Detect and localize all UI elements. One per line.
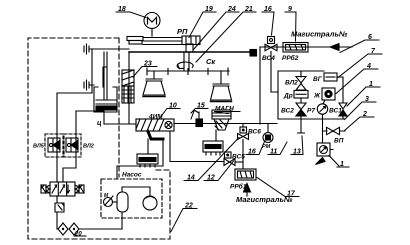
filter F1 [58, 223, 68, 235]
motor box Zh [322, 88, 335, 100]
rail block RP [182, 36, 200, 45]
wire cylinder feed [76, 110, 104, 112]
wire magnet drain [215, 130, 217, 141]
valve VC4 [265, 44, 277, 50]
tool bell right [220, 71, 222, 84]
cylinder piston [96, 100, 116, 104]
solenoid valve VL2L [64, 134, 81, 157]
svg-text:ВС5: ВС5 [232, 154, 245, 161]
valve VC5 assembly [225, 152, 232, 158]
svg-text:1: 1 [340, 161, 344, 168]
wire rod link [103, 67, 107, 87]
throttle VG [324, 73, 337, 81]
svg-text:16: 16 [264, 6, 272, 13]
magnet stack MAGN [212, 110, 231, 119]
tank box 12 [203, 141, 223, 152]
svg-text:21: 21 [244, 6, 253, 13]
cylinder C body [94, 87, 117, 112]
cylinder C (piston rod) [104, 52, 107, 100]
wire anchor pipe to rod [89, 48, 129, 50]
arrow magistral bottom [244, 184, 251, 193]
svg-text:ВС1: ВС1 [329, 108, 342, 115]
svg-text:ВП: ВП [334, 138, 344, 145]
spring left [46, 185, 50, 193]
svg-text:Ж: Ж [313, 93, 321, 100]
svg-text:2: 2 [362, 111, 367, 118]
check valve VL2 [296, 71, 306, 90]
wire machine bottom pipe [174, 123, 277, 125]
wire pump internal [122, 187, 150, 196]
pump gauge [104, 198, 113, 207]
wire valve line A [57, 93, 92, 182]
ground anchor lower [84, 80, 94, 90]
svg-text:Магистраль№: Магистраль№ [236, 195, 293, 204]
svg-text:6: 6 [368, 34, 372, 41]
arrow magistral top [330, 44, 339, 51]
motor M (18) [144, 13, 160, 29]
wire suction line [79, 228, 122, 230]
magistral block RR61 [235, 169, 256, 180]
flow arrow under Q [316, 158, 326, 165]
wire to VC5 [170, 131, 224, 162]
valve VC6 assembly [242, 124, 244, 128]
svg-text:1: 1 [369, 81, 373, 88]
svg-text:19: 19 [205, 6, 213, 13]
valve VP [323, 127, 346, 134]
svg-text:15: 15 [197, 103, 205, 110]
valve VC1 [339, 103, 347, 116]
wire elbow drops [147, 139, 149, 154]
svg-text:4: 4 [366, 63, 371, 70]
wire to filters [56, 212, 58, 229]
svg-text:ВЛ5: ВЛ5 [33, 144, 45, 150]
svg-text:4ИМ: 4ИМ [148, 114, 163, 121]
pressure regulator RR62 [283, 43, 308, 53]
motor stem [151, 29, 153, 37]
svg-text:12: 12 [207, 175, 215, 182]
dashed pump unit box [101, 179, 162, 218]
wire pump inlet from above [117, 140, 163, 178]
slide rail RP [143, 38, 182, 45]
right group frame [278, 71, 344, 119]
spindle shaft [184, 53, 189, 70]
leader 1b [329, 156, 349, 168]
gauge P7 [323, 100, 325, 104]
solenoid valve VL5 [45, 134, 63, 157]
motor mount block [127, 37, 143, 41]
svg-text:РП: РП [177, 27, 188, 36]
svg-text:РМ: РМ [262, 144, 271, 150]
svg-text:13: 13 [293, 149, 301, 156]
svg-text:ВС2: ВС2 [281, 108, 294, 115]
tool bell left [153, 71, 155, 79]
svg-text:РРб2: РРб2 [282, 54, 299, 62]
magistral line top [260, 46, 352, 48]
pump P [143, 196, 157, 210]
svg-text:3: 3 [365, 96, 369, 103]
feed rack 23 [122, 70, 134, 86]
throttle Dr [294, 91, 308, 99]
svg-text:Р7: Р7 [307, 108, 315, 115]
svg-text:РРб1: РРб1 [230, 183, 247, 191]
machine head box [129, 51, 256, 53]
valve VC2 [296, 98, 306, 116]
svg-text:ВГ: ВГ [313, 76, 323, 83]
feed box IM (hatched) [136, 119, 174, 131]
junction block 15 [198, 112, 200, 121]
svg-text:23: 23 [143, 61, 152, 68]
leader lines for numbered labels [74, 12, 382, 236]
svg-text:Ск: Ск [206, 57, 216, 66]
svg-text:ВС6: ВС6 [248, 129, 261, 136]
wire VG to VC1 [337, 77, 343, 103]
wire tank return [121, 212, 123, 229]
svg-text:9: 9 [288, 6, 292, 13]
svg-text:16: 16 [248, 149, 256, 156]
spindle cross rail [147, 70, 229, 72]
thick drain elbow [148, 132, 163, 140]
wire machine right edge [259, 47, 261, 124]
svg-text:22: 22 [184, 203, 193, 210]
svg-text:11: 11 [270, 149, 277, 156]
pump unit Q [317, 143, 330, 156]
wire anchor vertical link [91, 49, 93, 93]
svg-text:24: 24 [227, 6, 236, 13]
rail stub [186, 44, 193, 52]
relief element B [56, 196, 58, 203]
svg-text:14: 14 [187, 175, 195, 182]
filter F2 [69, 223, 79, 235]
svg-text:ВС4: ВС4 [262, 55, 275, 62]
svg-text:ц: ц [97, 120, 102, 127]
directional valve R (4/3) body [50, 182, 75, 196]
svg-text:Др: Др [283, 93, 293, 100]
svg-text:МАГН: МАГН [215, 106, 234, 113]
svg-text:20: 20 [74, 232, 82, 238]
wire VC4 to group [271, 52, 278, 93]
dashed enclosure left system [28, 38, 170, 239]
ground anchor top [84, 44, 89, 54]
wire gauge down [322, 114, 324, 143]
svg-text:ВЛ2: ВЛ2 [83, 144, 94, 150]
wire cylinder lower port [104, 112, 136, 124]
svg-text:18: 18 [118, 6, 126, 13]
svg-text:Насос: Насос [122, 172, 142, 179]
svg-text:ВЛ2: ВЛ2 [285, 80, 298, 87]
svg-text:10: 10 [169, 103, 177, 110]
rotation arrow Sk [177, 62, 193, 68]
spring right [75, 185, 79, 193]
gauge RM [267, 124, 269, 133]
node junction [250, 50, 257, 57]
svg-text:Магистраль№: Магистраль№ [291, 30, 348, 39]
wire VC2 drain [298, 116, 305, 133]
wire valve line B [63, 111, 76, 182]
accumulator capsule [117, 192, 128, 212]
tank box 11 [137, 154, 158, 164]
